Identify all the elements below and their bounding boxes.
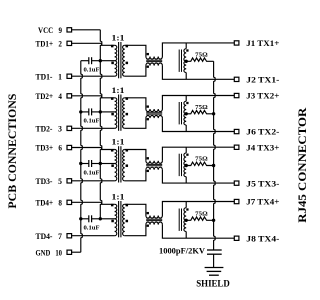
common-mode choke L1 <box>146 53 163 68</box>
svg-text:TD3+ 6: TD3+ 6 <box>36 144 63 153</box>
transformer T4 1:1 <box>111 192 128 237</box>
junction cap C2 right / center tap on VCC rail <box>99 110 102 113</box>
wire TD4+ to transformer primary top <box>72 202 115 204</box>
svg-text:75Ω: 75Ω <box>195 104 208 111</box>
wire primary center tap T4 <box>100 218 114 220</box>
svg-text:TD4+ 8: TD4+ 8 <box>36 199 63 208</box>
common-mode choke L3 <box>146 157 163 172</box>
svg-text:TD1+ 2: TD1+ 2 <box>36 40 63 49</box>
wire cap to shield ground <box>213 254 215 267</box>
RJ45 pin J3 TX2+ <box>234 92 279 101</box>
transformer T2 1:1 <box>111 86 128 131</box>
PCB pin TD3- 5 <box>36 177 72 186</box>
svg-text:1:1: 1:1 <box>112 192 125 201</box>
transformer T1 1:1 <box>111 33 128 78</box>
resistor R4 75 ohm <box>186 211 213 221</box>
junction term winding center tap ch4 <box>185 219 188 222</box>
wire choke L4 top to J output <box>162 202 234 216</box>
capacitor C3 0.1uF <box>81 160 101 176</box>
wire choke L1 bottom to J output <box>162 66 234 80</box>
wire choke L2 top to J output <box>162 96 234 110</box>
wire TD1- to transformer primary bottom <box>72 75 115 77</box>
VCC center-tap rail <box>100 30 102 219</box>
wire T4 secondary top to choke L4 <box>125 204 146 215</box>
wire choke L3 top to J output <box>162 147 234 161</box>
resistor R3 75 ohm <box>186 156 213 166</box>
resistor R1 75 ohm <box>186 52 213 62</box>
wire choke L2 bottom to J output <box>162 118 234 131</box>
PCB pin TD1- 1 <box>36 72 72 81</box>
wire T1 secondary top to choke L1 <box>125 45 146 56</box>
wire choke L3 bottom to J output <box>162 170 234 183</box>
svg-text:0.1uF: 0.1uF <box>84 118 100 125</box>
capacitor C4 0.1uF <box>81 215 101 231</box>
junction term winding center tap ch2 <box>185 112 188 115</box>
PCB pin TD2+ 4 <box>36 92 72 101</box>
wire TD3- to transformer primary bottom <box>72 180 115 182</box>
svg-text:TD2- 3: TD2- 3 <box>36 125 63 134</box>
svg-text:TD4- 7: TD4- 7 <box>36 232 63 241</box>
svg-text:0.1uF: 0.1uF <box>84 67 100 74</box>
PCB pin VCC 9 <box>38 26 72 35</box>
junction R4 output on termination bus <box>212 219 215 222</box>
GND rail <box>81 61 83 253</box>
wire primary center tap T1 <box>100 60 114 62</box>
termination winding L3b <box>179 147 188 183</box>
PCB pin TD4- 7 <box>36 232 72 241</box>
junction cap C4 left on GND rail <box>79 217 82 220</box>
svg-text:J7 TX4+: J7 TX4+ <box>246 198 279 207</box>
wire primary center tap T3 <box>100 163 114 165</box>
svg-text:1:1: 1:1 <box>112 33 125 42</box>
svg-text:J4 TX3+: J4 TX3+ <box>246 143 279 152</box>
PCB pin TD1+ 2 <box>36 40 72 49</box>
svg-text:75Ω: 75Ω <box>195 211 208 218</box>
svg-text:1:1: 1:1 <box>112 86 125 95</box>
svg-text:GND 10: GND 10 <box>36 248 63 257</box>
common-mode choke L2 <box>146 105 163 120</box>
wire choke L1 top to J output <box>162 43 234 57</box>
wire choke L4 bottom to J output <box>162 225 234 239</box>
RJ45 pin J1 TX1+ <box>234 39 279 48</box>
wire VCC pin to rail <box>72 29 101 31</box>
svg-text:75Ω: 75Ω <box>195 156 208 163</box>
junction term winding center tap ch3 <box>185 164 188 167</box>
wire T2 secondary bottom to choke L2 <box>125 118 146 128</box>
PCB pin TD3+ 6 <box>36 144 72 153</box>
wire TD2+ to transformer primary top <box>72 96 115 98</box>
wire T3 secondary bottom to choke L3 <box>125 170 146 181</box>
junction cap C2 left on GND rail <box>79 110 82 113</box>
RJ45 pin J5 TX3- <box>234 179 279 188</box>
wire T2 secondary top to choke L2 <box>125 98 146 109</box>
svg-text:J2 TX1-: J2 TX1- <box>246 76 279 85</box>
wire T4 secondary bottom to choke L4 <box>125 225 146 236</box>
svg-text:0.1uF: 0.1uF <box>84 169 100 176</box>
svg-text:1:1: 1:1 <box>112 138 125 147</box>
RJ45 pin J7 TX4+ <box>234 198 279 207</box>
wire primary center tap T2 <box>100 111 114 113</box>
svg-text:TD2+ 4: TD2+ 4 <box>36 92 63 101</box>
resistor R2 75 ohm <box>186 104 213 114</box>
capacitor C2 0.1uF <box>81 108 101 124</box>
RJ45 pin J2 TX1- <box>234 76 279 85</box>
wire T3 secondary top to choke L3 <box>125 150 146 161</box>
svg-text:TD3- 5: TD3- 5 <box>36 177 63 186</box>
capacitor C1 0.1uF <box>81 57 101 73</box>
svg-text:J1 TX1+: J1 TX1+ <box>246 39 279 48</box>
svg-text:1000pF/2KV: 1000pF/2KV <box>159 247 205 256</box>
wire TD4- to transformer primary bottom <box>72 235 115 237</box>
RJ45 pin J4 TX3+ <box>234 143 279 152</box>
svg-text:J5 TX3-: J5 TX3- <box>246 179 279 188</box>
svg-text:TD1- 1: TD1- 1 <box>36 72 63 81</box>
junction R2 output on termination bus <box>212 112 215 115</box>
junction cap C3 left on GND rail <box>79 162 82 165</box>
svg-text:J6 TX2-: J6 TX2- <box>246 128 279 137</box>
junction R3 output on termination bus <box>212 164 215 167</box>
junction cap C4 right / center tap on VCC rail <box>99 217 102 220</box>
termination winding L1b <box>179 43 188 79</box>
wire TD2- to transformer primary bottom <box>72 127 115 129</box>
GND wire pin to rail <box>72 251 81 253</box>
svg-text:0.1uF: 0.1uF <box>84 225 100 232</box>
svg-text:SHIELD: SHIELD <box>196 279 230 289</box>
junction cap C3 right / center tap on VCC rail <box>99 162 102 165</box>
PCB pin TD4+ 8 <box>36 199 72 208</box>
capacitor 1000pF/2KV <box>159 247 222 256</box>
common-mode choke L4 <box>146 212 163 227</box>
junction cap C1 right / center tap on VCC rail <box>99 59 102 62</box>
RJ45 pin J6 TX2- <box>234 128 279 137</box>
svg-text:75Ω: 75Ω <box>195 52 208 59</box>
wire TD3+ to transformer primary top <box>72 148 115 150</box>
termination winding L4b <box>179 202 188 239</box>
RJ45 pin J8 TX4- <box>234 234 279 243</box>
PCB pin GND 10 <box>36 248 72 257</box>
svg-text:J3 TX2+: J3 TX2+ <box>246 92 279 101</box>
junction term winding center tap ch1 <box>185 60 188 63</box>
svg-text:RJ45 CONNECTOR: RJ45 CONNECTOR <box>297 107 309 223</box>
wire TD1+ to transformer primary top <box>72 43 115 45</box>
ground SHIELD <box>196 268 230 290</box>
svg-text:J8 TX4-: J8 TX4- <box>246 234 279 243</box>
PCB pin TD2- 3 <box>36 125 72 134</box>
transformer T3 1:1 <box>111 138 128 183</box>
svg-text:VCC 9: VCC 9 <box>38 26 62 35</box>
termination bus to shield cap <box>214 61 216 250</box>
wire T1 secondary bottom to choke L1 <box>125 66 146 77</box>
svg-text:PCB CONNECTIONS: PCB CONNECTIONS <box>7 94 19 209</box>
termination winding L2b <box>179 96 188 132</box>
